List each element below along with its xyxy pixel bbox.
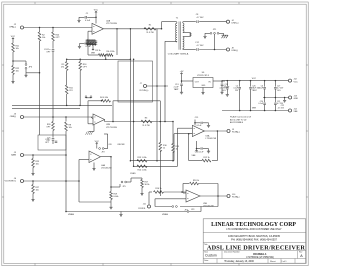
- ground U6: [201, 88, 204, 95]
- resistor R27: [32, 181, 40, 194]
- svg-text:PLACE C4,C5,C6 & C8: PLACE C4,C5,C6 & C8: [230, 116, 252, 119]
- port J9: [227, 129, 240, 134]
- svg-text:0.1uF: 0.1uF: [199, 152, 205, 154]
- svg-text:VEE: VEE: [294, 111, 299, 113]
- svg-text:U3A: U3A: [206, 135, 211, 138]
- wire U3A fb: [212, 131, 217, 161]
- ground R19: [109, 200, 112, 210]
- svg-text:AS POSSIBLE: AS POSSIBLE: [230, 121, 244, 124]
- svg-text:LT1795CFE: LT1795CFE: [106, 127, 118, 129]
- port J11: [138, 204, 150, 210]
- svg-text:VCC: VCC: [94, 10, 99, 12]
- svg-text:4.7 50V: 4.7 50V: [197, 45, 205, 47]
- resistor R16: [154, 188, 164, 193]
- ground VBIAS: [119, 212, 122, 217]
- port J5: [11, 152, 24, 157]
- svg-text:VBIAS: VBIAS: [162, 213, 169, 216]
- svg-text:VEE: VEE: [91, 52, 96, 54]
- svg-text:6.04k: 6.04k: [114, 196, 119, 198]
- op-amp U4A: [89, 151, 112, 170]
- jumper JP1: [205, 29, 224, 34]
- svg-text:R5 1k: R5 1k: [95, 50, 100, 52]
- wire U2A out: [104, 28, 162, 30]
- resistor R6: [106, 51, 114, 56]
- wire fb row left: [66, 59, 81, 61]
- wire J3 to U2B: [24, 117, 93, 119]
- wire U6 out: [181, 76, 193, 84]
- resistor R17: [141, 178, 150, 188]
- svg-text:VEE: VEE: [252, 108, 257, 110]
- port J4: [226, 20, 238, 25]
- resistor R23: [32, 155, 40, 168]
- wire U2B out: [105, 120, 174, 122]
- title label Rev: [299, 252, 302, 254]
- vertical R15 line: [172, 121, 174, 144]
- capacitor C6: [258, 80, 266, 98]
- capacitor C21: [274, 98, 284, 112]
- node R4 tap: [101, 100, 103, 102]
- svg-text:10%: 10%: [222, 90, 226, 92]
- node J2-R20: [52, 27, 54, 29]
- wire gain tap down: [67, 59, 131, 61]
- label VBIAS right: [162, 213, 169, 216]
- vertical R14 to U3A: [178, 128, 193, 166]
- capacitor C17 box: [38, 135, 66, 150]
- ground R23: [31, 168, 34, 176]
- note placement: [230, 116, 252, 125]
- title text address: [228, 235, 280, 238]
- vertical R10: [160, 101, 162, 143]
- regulator U6 box: [193, 72, 213, 88]
- wire VBIAS rail: [65, 211, 201, 213]
- label +5V: [180, 71, 184, 75]
- capacitor C1: [79, 13, 97, 22]
- op-amp U2A: [92, 19, 118, 34]
- wire T1 primary bottom: [164, 41, 176, 122]
- svg-text:1 of 1: 1 of 1: [281, 261, 287, 263]
- title text sheet: [281, 261, 287, 263]
- op-amp U5B: [186, 190, 214, 208]
- svg-text:FSED: FSED: [130, 173, 136, 175]
- wire JP6 to R2 node: [26, 72, 40, 74]
- jumper JP3: [187, 209, 194, 212]
- svg-text:ADSL LINE DRIVER/RECEIVER: ADSL LINE DRIVER/RECEIVER: [207, 245, 306, 252]
- node U3A fb: [217, 130, 219, 132]
- wire VCC rail: [222, 78, 288, 81]
- wire GND rail: [263, 97, 288, 99]
- node U2B fb: [112, 121, 114, 123]
- wire U4A to JP5: [111, 184, 120, 187]
- wire JP1 center down: [214, 34, 216, 49]
- title text phone: [231, 239, 277, 242]
- node J3-b: [65, 116, 67, 118]
- capacitor C13: [174, 84, 183, 90]
- svg-text:LTC CONFIDENTIAL-FOR CUSTOMER: LTC CONFIDENTIAL-FOR CUSTOMER USE ONLY: [226, 228, 282, 231]
- node J3-a: [52, 116, 54, 118]
- resistor R18: [183, 180, 218, 196]
- capacitor C9: [80, 39, 94, 48]
- capacitor C8: [196, 14, 204, 23]
- supply rail pair A: [12, 104, 112, 106]
- vee label U3A: [191, 149, 197, 157]
- wire C24 down: [52, 51, 54, 117]
- vertical sense line+: [156, 29, 158, 162]
- svg-text:10k: 10k: [16, 48, 19, 50]
- port J13 GND: [289, 96, 299, 101]
- svg-text:U2A: U2A: [106, 19, 111, 22]
- title text rev: [300, 254, 303, 258]
- title text confidential: [226, 228, 282, 231]
- wire R2 node down: [39, 73, 41, 135]
- resistor R5: [95, 50, 106, 56]
- ground JP1 left: [203, 33, 206, 38]
- title label Sheet: [270, 260, 276, 263]
- wire JP4 to -in: [155, 199, 186, 207]
- wire C12 to J8: [199, 49, 226, 51]
- svg-text:Thursday, January 13, 2000: Thursday, January 13, 2000: [224, 260, 254, 263]
- resistor R19: [110, 192, 119, 200]
- wire U2A out to T1: [161, 22, 177, 30]
- wire R4 row right: [113, 100, 160, 102]
- node J7-x: [156, 85, 158, 87]
- svg-text:R12 1k: R12 1k: [203, 157, 209, 159]
- label C22: [278, 105, 285, 109]
- gain loop vertical A: [130, 28, 132, 161]
- resistor R14: [137, 165, 147, 172]
- wire R13 to U3A: [174, 134, 192, 161]
- svg-text:Sheet: Sheet: [270, 260, 276, 263]
- ground R17: [140, 188, 143, 196]
- svg-text:LINE(-): LINE(-): [232, 50, 239, 52]
- capacitor C12: [195, 42, 204, 51]
- port J3: [10, 114, 24, 119]
- resistor R3: [141, 118, 152, 127]
- wire C17b stub: [52, 140, 54, 144]
- title text doc: [207, 245, 306, 252]
- ground C14: [220, 90, 223, 94]
- label VBIAS left: [68, 213, 75, 216]
- wire T1 top out: [183, 21, 196, 23]
- wire R12 to -in: [188, 133, 202, 161]
- svg-text:COILCRAFT X8390-A: COILCRAFT X8390-A: [168, 53, 189, 56]
- svg-text:0.1uF: 0.1uF: [85, 20, 91, 22]
- jumper JP2: [99, 134, 108, 153]
- svg-text:U4A: U4A: [101, 164, 106, 167]
- transformer T1: [176, 18, 184, 50]
- wire R15 down: [172, 152, 174, 161]
- svg-text:RCVA(+): RCVA(+): [232, 131, 240, 134]
- svg-text:10k: 10k: [16, 71, 19, 73]
- svg-text:VCC: VCC: [294, 81, 299, 83]
- wire R10 join: [160, 191, 162, 193]
- chassis ground JP1: [222, 33, 229, 38]
- wire J11 up: [149, 192, 152, 205]
- capacitor C24: [44, 49, 54, 54]
- wire R16 to U5B: [164, 191, 187, 193]
- supply rail pair B: [12, 108, 80, 110]
- resistor R10: [159, 143, 168, 152]
- ground C1: [77, 17, 80, 22]
- resistor R22: [12, 66, 20, 75]
- resistor network RP1: [86, 40, 96, 46]
- svg-text:LT1795CFE: LT1795CFE: [106, 23, 118, 25]
- wire J6: [24, 180, 80, 182]
- svg-text:10k: 10k: [36, 164, 39, 166]
- label FSED: [130, 173, 136, 175]
- wire U4A fb loop: [79, 157, 112, 202]
- svg-text:10k: 10k: [42, 37, 45, 39]
- svg-text:R18 1k: R18 1k: [193, 180, 199, 182]
- port J10: [227, 194, 240, 199]
- port J2: [9, 24, 23, 29]
- wire bias to JP6: [13, 61, 26, 64]
- svg-text:PH: (408) 954-8400 FAX: (408): PH: (408) 954-8400 FAX: (408) 434-0507: [231, 239, 277, 242]
- capacitor C27: [274, 80, 284, 98]
- title text date: [224, 260, 254, 263]
- svg-text:VCONTROL: VCONTROL: [4, 181, 16, 183]
- title label Date: [204, 259, 209, 262]
- resistor R8: [65, 117, 72, 131]
- svg-text:GND: GND: [294, 98, 299, 100]
- wire U6 in: [213, 80, 225, 82]
- resistor R13: [137, 157, 147, 162]
- wire J2 to U2A +in: [24, 27, 92, 29]
- jumper JP5: [121, 178, 142, 188]
- resistor R26 opt: [46, 117, 54, 131]
- wire R10 down: [159, 151, 161, 196]
- wire fb to -in: [88, 31, 99, 55]
- wire U2B fb up: [112, 101, 114, 122]
- wire C8 to J4: [199, 21, 226, 23]
- port J12 VCC: [288, 79, 298, 84]
- node J7-y: [164, 85, 166, 87]
- svg-text:R4 4.99k: R4 4.99k: [100, 97, 108, 99]
- node JP1 tap: [214, 49, 216, 51]
- svg-text:Custom: Custom: [205, 254, 217, 258]
- svg-text:R6 4.99k: R6 4.99k: [106, 51, 114, 53]
- wire R8 down to VBIAS: [65, 131, 67, 212]
- wire R14 row: [134, 165, 178, 167]
- wire U2A fb down: [116, 29, 118, 55]
- svg-text:R13 1.05k: R13 1.05k: [137, 157, 146, 159]
- svg-text:ON/OFF: ON/OFF: [117, 144, 125, 146]
- node J2-R2: [39, 27, 41, 29]
- svg-text:GAIN: GAIN: [11, 154, 17, 157]
- svg-text:LT1795CFE (LT1795CSW): LT1795CFE (LT1795CSW): [246, 257, 274, 259]
- svg-text:Document Number: Document Number: [224, 251, 240, 254]
- title block frame: [203, 219, 306, 263]
- svg-text:1k: 1k: [163, 148, 165, 150]
- wire VBIAS right up: [200, 207, 202, 212]
- svg-text:10k: 10k: [36, 190, 39, 192]
- wire J7 right: [147, 85, 168, 87]
- svg-text:C15: C15: [195, 117, 198, 119]
- capacitor C4: [233, 80, 241, 111]
- svg-text:0.1uF: 0.1uF: [85, 46, 91, 48]
- resistor R2: [38, 28, 45, 42]
- svg-text:+5V: +5V: [180, 71, 184, 73]
- svg-text:4.7 25V: 4.7 25V: [278, 107, 285, 109]
- capacitor C17b: [46, 131, 54, 143]
- wire U3A out: [204, 130, 226, 132]
- wire U4A out: [101, 156, 112, 158]
- svg-text:OPA(+): OPA(+): [9, 26, 16, 29]
- resistor R24: [79, 59, 88, 105]
- node U2A fb: [116, 28, 118, 30]
- vcc JP2: [95, 141, 100, 149]
- svg-text:VCC: VCC: [11, 36, 16, 38]
- vcc rail J2 bias: [11, 36, 16, 43]
- svg-text:10k: 10k: [69, 127, 72, 129]
- hybrid loop box: [118, 61, 153, 102]
- op-amp U2B: [93, 114, 118, 129]
- svg-text:0.1uF: 0.1uF: [197, 125, 203, 127]
- capacitor C14: [221, 81, 230, 90]
- title text company: [211, 222, 296, 228]
- resistor R1: [144, 25, 156, 34]
- svg-text:VCC: VCC: [252, 78, 257, 80]
- capacitor C20: [258, 98, 266, 112]
- title text docnum: [253, 252, 267, 256]
- wire R2 down: [39, 41, 41, 73]
- vcc U2A: [94, 10, 99, 24]
- port J6: [4, 178, 23, 183]
- vee RP1: [91, 45, 96, 55]
- resistor R9: [61, 59, 68, 70]
- svg-text:JP5: JP5: [122, 186, 125, 188]
- title label Title: [204, 243, 208, 246]
- vee arrows U2B: [85, 95, 92, 98]
- node rail: [79, 105, 81, 107]
- op-amp U3A: [192, 125, 217, 140]
- svg-text:R16 1k: R16 1k: [155, 188, 161, 190]
- svg-text:AS CLOSE TO U2: AS CLOSE TO U2: [230, 118, 247, 121]
- jumper JP6: [25, 64, 33, 69]
- gain loop vertical B: [133, 59, 135, 168]
- svg-text:R14 1.05k: R14 1.05k: [137, 170, 146, 172]
- svg-text:RCVIN(+): RCVIN(+): [140, 90, 149, 92]
- resistor R12: [202, 157, 211, 162]
- svg-text:LINE(+): LINE(+): [232, 22, 239, 24]
- port J14 VEE: [288, 109, 298, 114]
- svg-text:TANT: TANT: [174, 88, 180, 91]
- svg-text:JP2: JP2: [101, 151, 104, 153]
- wire T1 bottom out: [183, 49, 196, 51]
- secondary mid loop: [183, 33, 191, 37]
- title text size: [205, 254, 217, 258]
- ground C9: [78, 44, 81, 49]
- title text docnum2: [246, 257, 274, 259]
- ground C13: [174, 88, 183, 94]
- wire R20 to C24: [52, 41, 54, 49]
- wire VEE rail: [222, 108, 288, 111]
- ground U4A: [92, 163, 95, 171]
- node fb gain tap: [105, 54, 107, 59]
- svg-text:11.3 2W: 11.3 2W: [146, 32, 153, 34]
- svg-text:Date:: Date:: [204, 259, 209, 262]
- svg-text:RCVFIL: RCVFIL: [138, 208, 146, 210]
- svg-text:DC384A-1: DC384A-1: [253, 252, 267, 256]
- svg-text:4.7 50V: 4.7 50V: [197, 17, 205, 19]
- ground U3A cap2: [207, 149, 210, 153]
- wire U5B fb: [180, 196, 218, 207]
- label onoff: [109, 144, 126, 146]
- ground GND rail: [283, 97, 286, 102]
- chassis ground U2B: [86, 125, 95, 135]
- capacitor C7 sec: [189, 34, 191, 35]
- vee U3A cap: [195, 141, 209, 154]
- resistor R4: [100, 97, 111, 102]
- label T1 part: [168, 53, 189, 56]
- svg-text:OPA(-): OPA(-): [10, 115, 17, 118]
- port J7: [140, 83, 149, 92]
- svg-text:JP3: JP3: [191, 209, 194, 211]
- wire vee row: [86, 98, 91, 101]
- resistor R21: [12, 43, 20, 52]
- wire U5B out: [200, 195, 227, 197]
- wire J5: [24, 154, 67, 156]
- svg-text:11.3 2W: 11.3 2W: [142, 125, 149, 127]
- ground R27: [31, 194, 34, 202]
- resistor R11: [65, 71, 73, 107]
- wire R4 to -in: [88, 101, 102, 124]
- resistor R15: [172, 144, 180, 153]
- port J8: [226, 48, 238, 53]
- title label Size: [204, 252, 208, 254]
- svg-text:LT1545CS8: LT1545CS8: [206, 138, 217, 140]
- ground U3A cap: [207, 123, 210, 127]
- ground JP6: [24, 69, 27, 77]
- capacitor C3: [219, 80, 228, 96]
- jumper JP4: [155, 206, 188, 212]
- svg-text:10%: 10%: [277, 90, 281, 92]
- ground R22: [11, 75, 14, 84]
- svg-text:RCVA(-): RCVA(-): [232, 196, 240, 199]
- svg-text:LT1121CST-5: LT1121CST-5: [197, 75, 210, 77]
- svg-text:VCC: VCC: [95, 141, 100, 143]
- svg-text:30.9k: 30.9k: [145, 184, 150, 186]
- resistor R20: [52, 28, 61, 42]
- node R21-R22: [12, 52, 14, 66]
- wire R13 row: [130, 160, 174, 162]
- svg-text:VBIAS: VBIAS: [68, 213, 75, 216]
- title label DocNumber: [224, 251, 240, 254]
- vcc U3A cap: [194, 117, 208, 127]
- capacitor C26: [249, 80, 261, 111]
- svg-text:VEE: VEE: [191, 155, 196, 157]
